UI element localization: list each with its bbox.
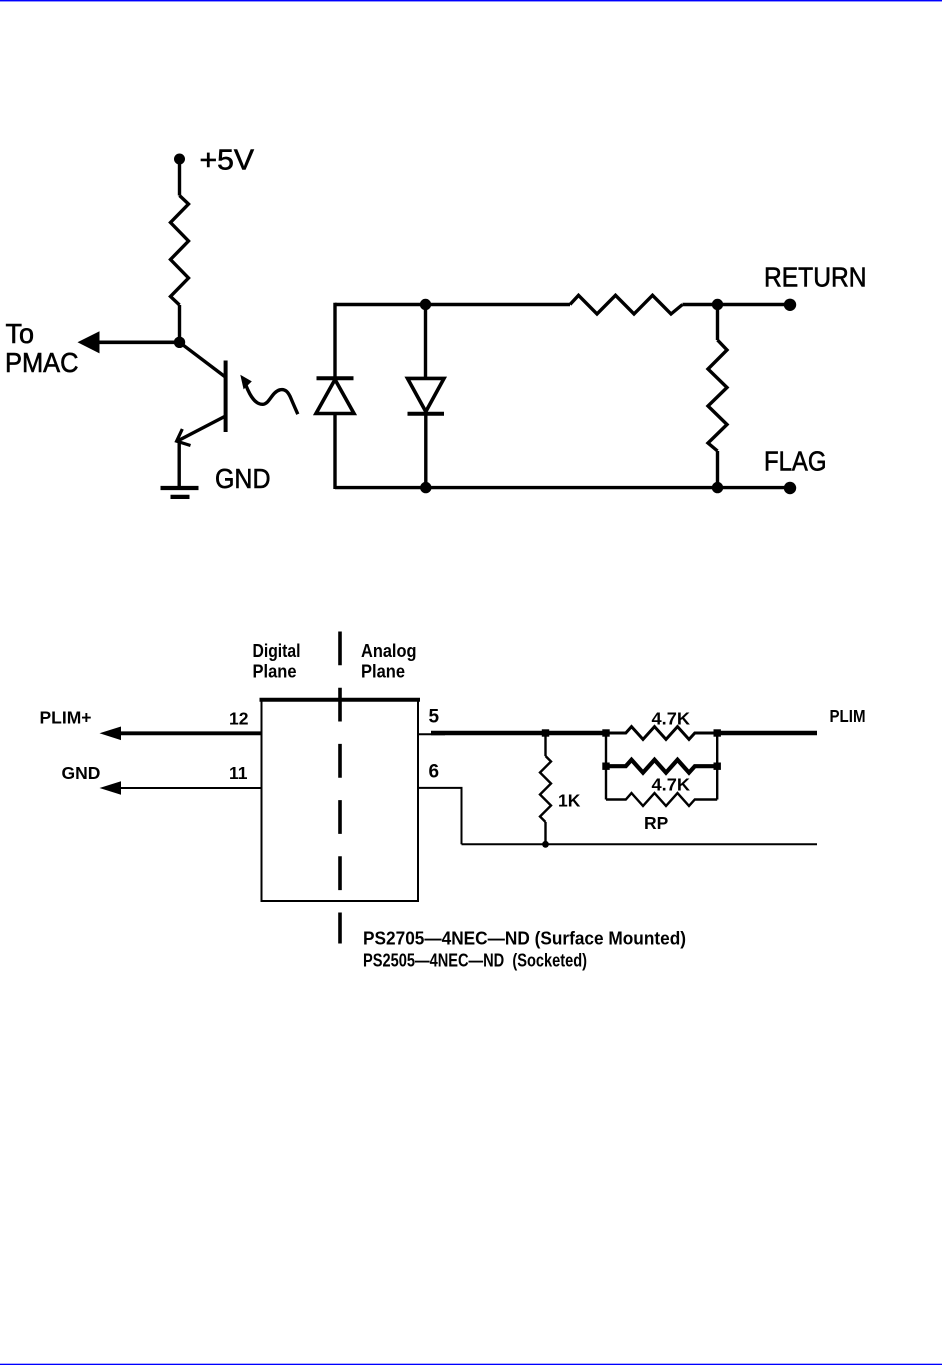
svg-text:6: 6 <box>429 762 440 783</box>
bottom return wire <box>462 843 818 845</box>
svg-text:Analog: Analog <box>361 640 417 661</box>
svg-text:PS2505—4NEC—ND (Socketed): PS2505—4NEC—ND (Socketed) <box>363 951 587 971</box>
pin 6 wire <box>418 788 462 844</box>
wire right diode upper <box>424 305 427 379</box>
node 1K bottom junction dot <box>542 841 549 848</box>
terminal RETURN dot <box>784 299 796 311</box>
svg-text:1K: 1K <box>558 791 581 811</box>
svg-text:PLIM: PLIM <box>830 706 866 726</box>
arrow PLIM+ <box>100 727 122 741</box>
resistor 1K leads <box>544 733 546 756</box>
node return junction dot <box>712 299 723 310</box>
svg-text:Plane: Plane <box>253 660 297 681</box>
diode D2 cathode bar <box>408 412 445 416</box>
resistor 1K zigzag <box>540 756 551 822</box>
node bottom diode junction dot <box>420 482 431 493</box>
wire left side lower <box>333 414 336 490</box>
svg-text:FLAG: FLAG <box>764 445 827 476</box>
resistor R2 (series, horizontal) <box>570 295 683 314</box>
svg-text:RP: RP <box>644 813 669 833</box>
top blue rule <box>0 0 942 1</box>
RP right node square mid <box>714 763 721 770</box>
arrow to PMAC <box>78 331 100 353</box>
pin 12 wire <box>117 731 262 735</box>
svg-text:11: 11 <box>229 763 248 783</box>
RP left node square top <box>602 729 609 736</box>
bottom blue rule <box>0 1362 942 1365</box>
pin 5 wire thick (PLIM rail) <box>431 731 606 736</box>
wire left side upper <box>333 303 336 378</box>
wire emitter to ground <box>177 443 180 489</box>
diode D1 (LED, pointing up) cathode bar <box>317 376 354 380</box>
ground <box>161 486 199 490</box>
wire +5V to R1 <box>178 161 181 196</box>
svg-text:Plane: Plane <box>361 660 405 681</box>
wire bottom rail <box>335 486 790 489</box>
resistor RP-c (bottom 4.7K) <box>606 793 717 806</box>
svg-text:RETURN: RETURN <box>764 262 867 293</box>
diode D2 (pointing down) triangle <box>408 378 445 411</box>
resistor RP-a (top 4.7K) <box>606 727 717 740</box>
svg-text:Digital: Digital <box>253 640 301 661</box>
transistor Q1 emitter lead <box>177 416 226 441</box>
wire right diode lower <box>424 414 427 488</box>
plane divider dashed line <box>338 632 342 944</box>
resistor R3 (vertical, to FLAG) <box>708 340 727 451</box>
wire return node to R3 <box>716 305 719 341</box>
svg-text:12: 12 <box>229 709 249 729</box>
resistor RP-b (middle 4.7K, thick) <box>606 760 717 773</box>
RP right node square top <box>714 729 721 736</box>
node 1K top junction square <box>542 729 549 736</box>
svg-text:GND: GND <box>62 763 101 783</box>
pin 5 wire (thin stub) <box>418 733 445 735</box>
svg-text:GND: GND <box>215 463 271 494</box>
wire R1 to collector node <box>178 305 181 342</box>
arrow GND <box>100 781 122 795</box>
wire top rail (anode rail) <box>335 303 570 306</box>
node flag junction dot <box>712 482 723 493</box>
node +5V terminal dot <box>174 154 185 165</box>
diode D1 triangle <box>316 380 354 414</box>
transistor Q1 collector lead <box>180 342 227 377</box>
RP right vertical <box>716 733 718 800</box>
svg-text:4.7K: 4.7K <box>652 708 691 728</box>
terminal FLAG dot <box>784 482 796 494</box>
svg-text:PLIM+: PLIM+ <box>40 708 92 728</box>
transistor Q1 base bar <box>224 361 228 433</box>
wire R3 to flag node <box>716 451 719 488</box>
transistor Q1 emitter arrowhead <box>177 429 191 446</box>
svg-text:To: To <box>6 318 35 349</box>
wire node to PMAC arrow <box>96 340 180 344</box>
node collector junction dot <box>174 337 185 348</box>
node top junction dot <box>420 299 431 310</box>
optocoupler light arrow (squiggle) <box>246 386 298 415</box>
pin 11 wire <box>117 787 262 789</box>
resistor R1 (pull-up) <box>171 196 189 306</box>
svg-text:PMAC: PMAC <box>5 347 79 378</box>
RP left node square mid <box>602 763 609 770</box>
wire PLIM rail right <box>717 731 817 736</box>
svg-text:+5V: +5V <box>200 145 255 177</box>
svg-text:4.7K: 4.7K <box>652 774 691 794</box>
svg-text:5: 5 <box>429 707 440 728</box>
svg-text:PS2705—4NEC—ND (Surface Mounte: PS2705—4NEC—ND (Surface Mounted) <box>363 929 686 949</box>
wire R2 to return node <box>683 303 791 306</box>
optocoupler U1 box <box>262 700 419 901</box>
RP left vertical <box>605 733 607 800</box>
